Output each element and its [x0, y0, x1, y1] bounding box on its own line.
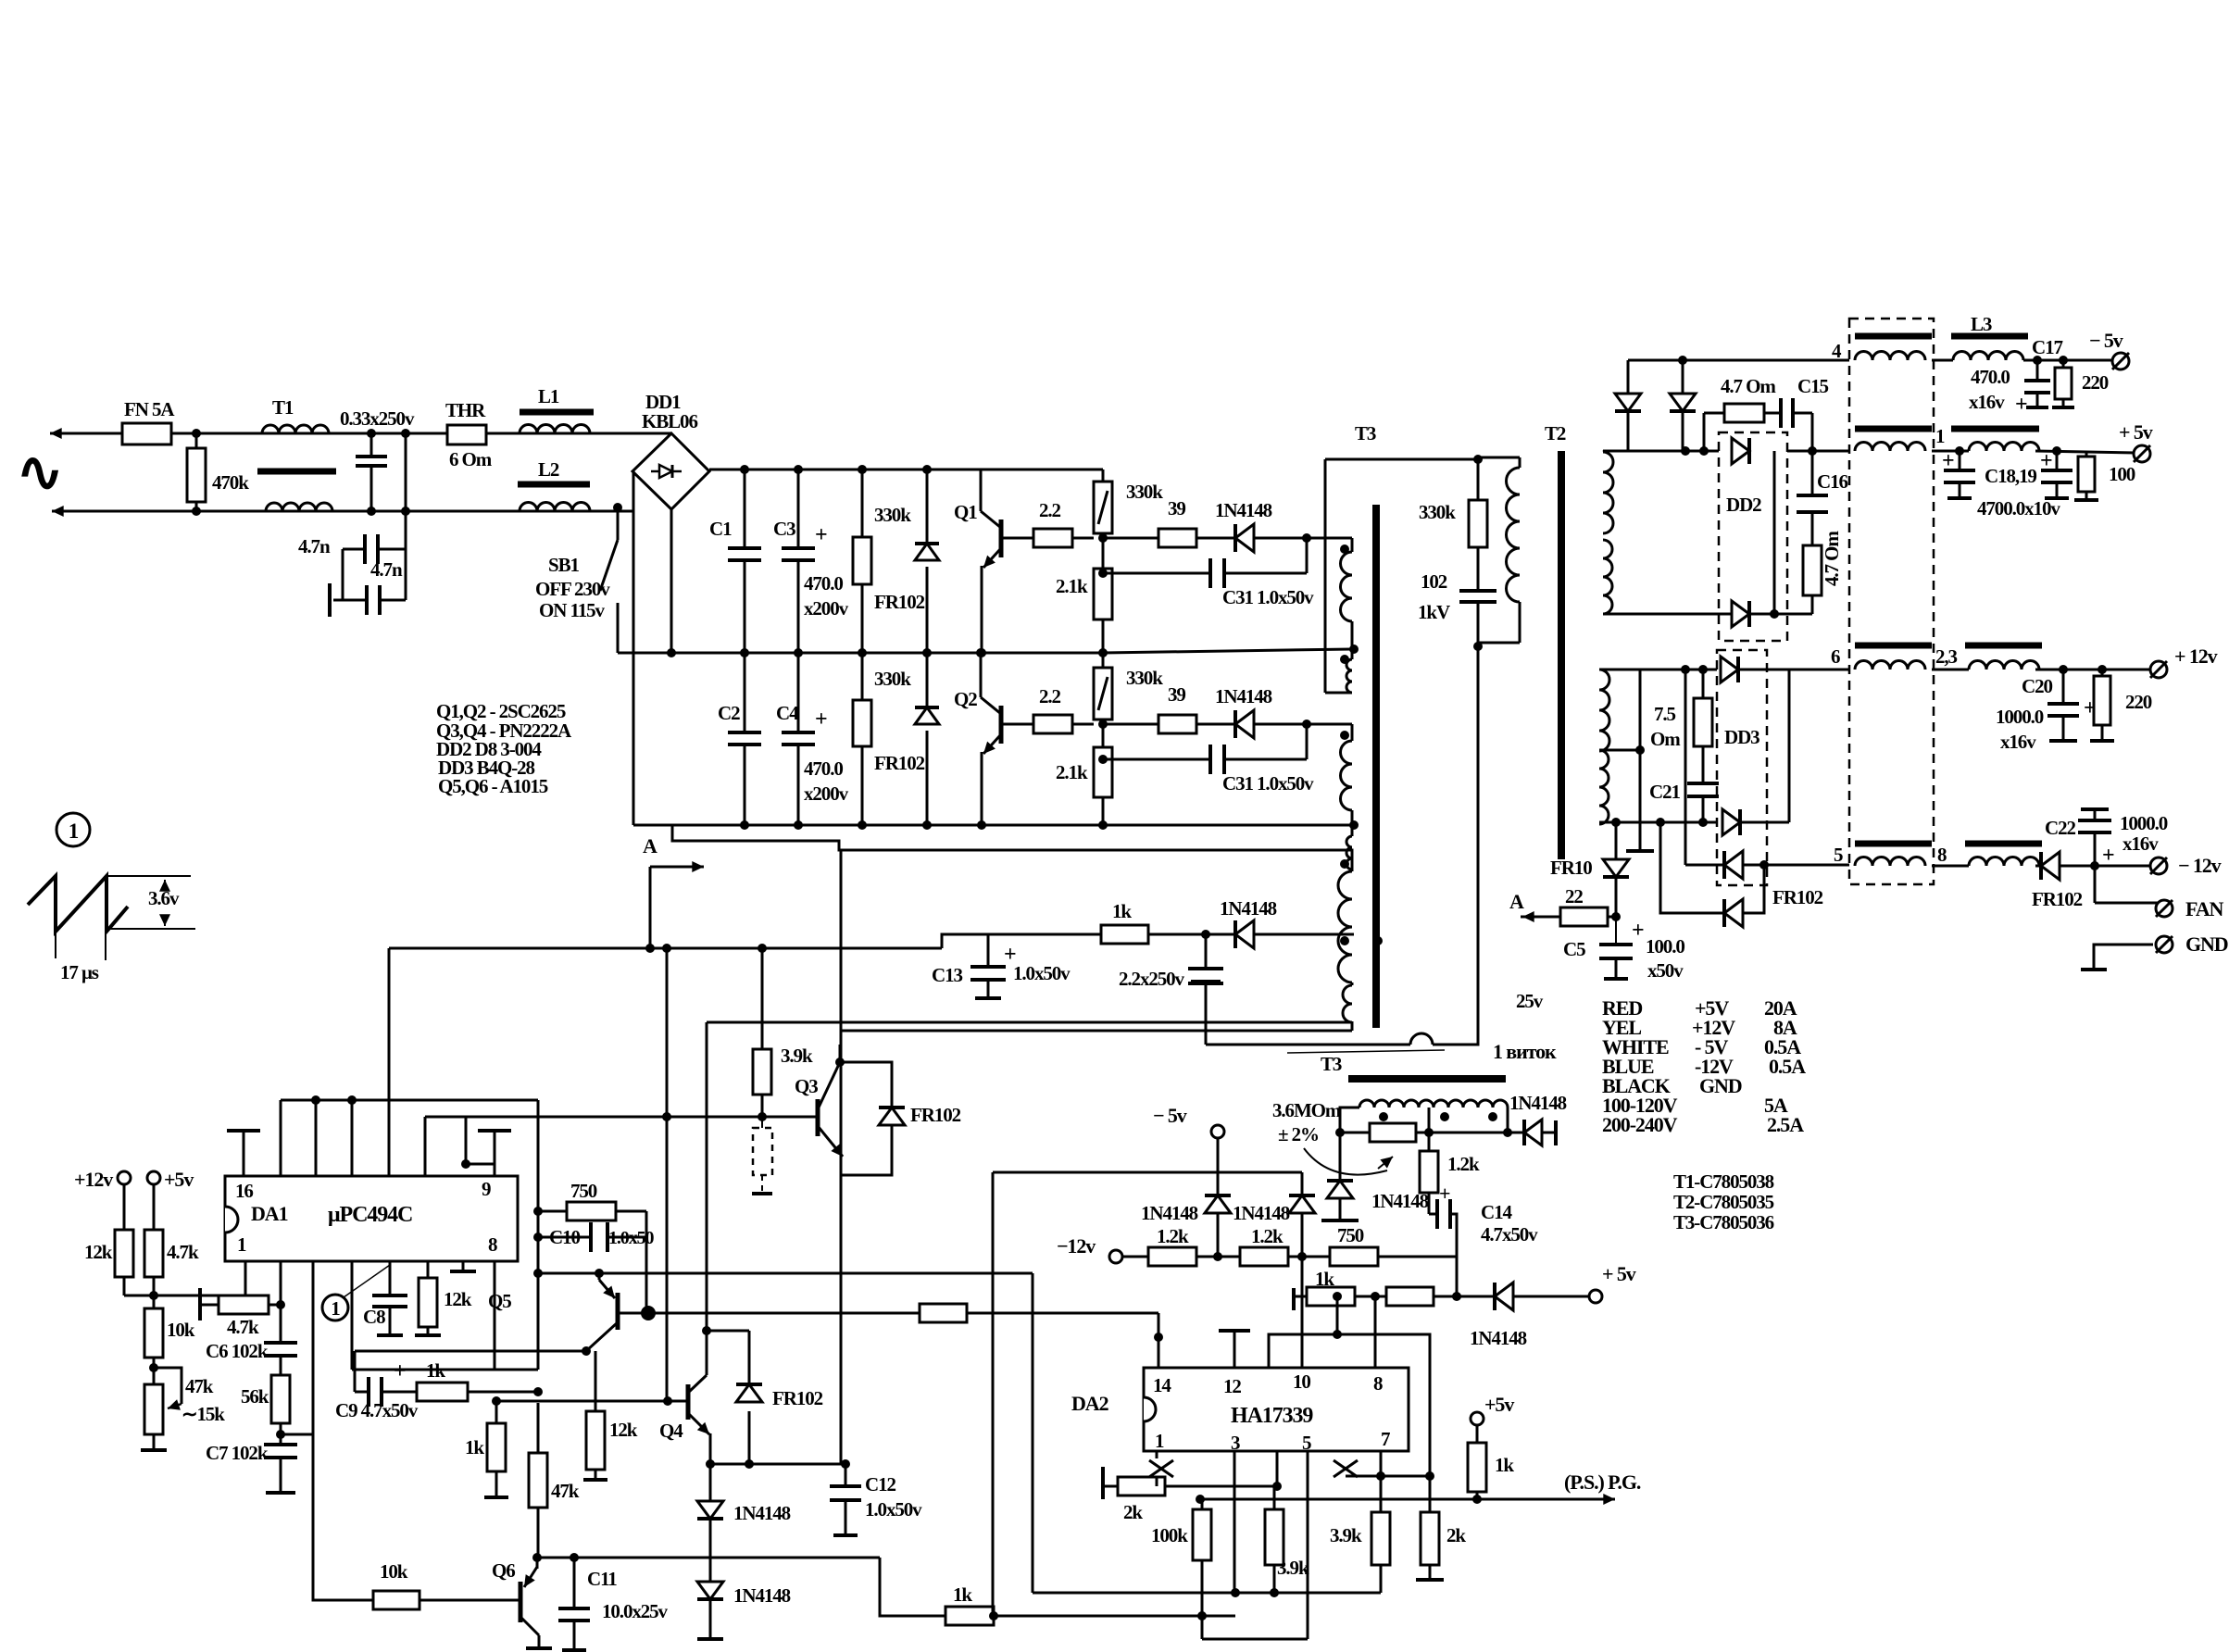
wire mid rail ext [982, 652, 1103, 655]
resistor on Q5 row [920, 1304, 967, 1322]
svg-text:14: 14 [1153, 1374, 1171, 1396]
svg-text:5: 5 [1834, 844, 1843, 866]
svg-text:+5v: +5v [164, 1168, 194, 1191]
svg-text:FAN: FAN [2185, 897, 2223, 920]
wire Q3 collector loop [840, 1062, 892, 1175]
svg-text:DA2: DA2 [1071, 1392, 1109, 1415]
svg-text:0.5A: 0.5A [1769, 1055, 1806, 1078]
T3 winding feedback [1338, 871, 1352, 982]
svg-text:12k: 12k [444, 1288, 472, 1310]
svg-text:Q6: Q6 [492, 1559, 515, 1582]
T3 winding drive2 [1307, 723, 1352, 726]
T3 sense winding B [1434, 1100, 1508, 1108]
svg-text:μPC494C: μPC494C [328, 1203, 412, 1227]
svg-text:C18,19: C18,19 [1985, 465, 2036, 487]
svg-text:1k: 1k [953, 1583, 972, 1606]
IC DA1 uPC494C [225, 1176, 518, 1261]
svg-text:330k: 330k [1126, 667, 1163, 689]
svg-text:2k: 2k [1123, 1501, 1143, 1523]
IC DA2 HA17339 [1144, 1368, 1409, 1451]
svg-text:470.0: 470.0 [804, 572, 843, 594]
svg-text:3.6MOm: 3.6MOm [1272, 1099, 1342, 1121]
label 1 vitok [1287, 1050, 1445, 1053]
wire 100k bottom row [1202, 1638, 1308, 1641]
svg-text:1: 1 [69, 820, 79, 843]
svg-text:3.9k: 3.9k [1330, 1524, 1362, 1546]
svg-text:+12v: +12v [74, 1168, 113, 1191]
svg-text:2,3: 2,3 [1935, 645, 1958, 668]
svg-text:ON 115v: ON 115v [539, 599, 605, 621]
X mark pin1 [1156, 1451, 1158, 1458]
svg-text:1N4148: 1N4148 [1215, 685, 1272, 707]
diode FR102 -12v [1684, 670, 1687, 865]
fuse FN 5A [122, 423, 171, 444]
svg-text:+: + [2102, 844, 2114, 868]
wire Q1 base row [1001, 537, 1033, 540]
svg-text:+5v: +5v [1484, 1393, 1514, 1416]
svg-text:200-240V: 200-240V [1602, 1113, 1678, 1136]
svg-text:750: 750 [1337, 1224, 1364, 1246]
choke bar row4 [1855, 333, 1932, 340]
wire loop left leg [1205, 983, 1208, 1045]
diode FR102 lower loop [1660, 822, 1724, 913]
svg-text:17 μs: 17 μs [60, 961, 99, 983]
sawtooth waveform [28, 876, 128, 932]
pot arrow 3.6MOm [1304, 1148, 1387, 1175]
wire mid rail [618, 652, 982, 655]
svg-text:4.7n: 4.7n [370, 558, 403, 581]
svg-text:x200v: x200v [804, 782, 849, 805]
svg-text:100k: 100k [1151, 1524, 1188, 1546]
svg-text:100: 100 [2109, 463, 2135, 485]
svg-text:1N4148: 1N4148 [1509, 1092, 1567, 1114]
diode 1N4148 left [1339, 1133, 1342, 1181]
T2 secondary upper winding [1603, 452, 1613, 533]
wire DA1 pin8 row [494, 1261, 496, 1370]
svg-text:x200v: x200v [804, 597, 849, 619]
svg-text:330k: 330k [874, 504, 911, 526]
svg-text:+ 12v: + 12v [2174, 645, 2218, 668]
wire to lower cap [405, 549, 407, 600]
wire to pin 1 [124, 1295, 245, 1297]
svg-text:1 виток: 1 виток [1493, 1040, 1557, 1063]
svg-text:8: 8 [1937, 844, 1947, 866]
wire 1k row right [994, 1615, 1202, 1618]
svg-text:750: 750 [570, 1180, 597, 1202]
wire Q2 base row [1001, 723, 1033, 726]
svg-text:330k: 330k [1419, 501, 1456, 523]
svg-text:C20: C20 [2022, 675, 2052, 697]
svg-text:FR102: FR102 [772, 1387, 823, 1409]
svg-text:C21: C21 [1649, 781, 1680, 803]
svg-text:(P.S.) P.G.: (P.S.) P.G. [1564, 1471, 1641, 1494]
svg-text:4.7x50v: 4.7x50v [1481, 1223, 1538, 1245]
svg-text:16: 16 [235, 1180, 253, 1202]
svg-text:Q5: Q5 [488, 1290, 511, 1312]
svg-text:GND: GND [2185, 932, 2228, 956]
wire Q4 base row [496, 1400, 688, 1403]
wire +5v rail from T2 [1603, 450, 1849, 453]
svg-text:39: 39 [1168, 497, 1185, 519]
svg-text:+: + [2015, 393, 2027, 417]
wire Q2 drive to T3 [1254, 723, 1307, 726]
svg-text:FR102: FR102 [874, 591, 925, 613]
svg-text:+ 5v: + 5v [1602, 1262, 1636, 1285]
svg-text:4.7 Om: 4.7 Om [1721, 375, 1776, 397]
svg-text:470k: 470k [212, 471, 249, 494]
output choke dashed box [1849, 319, 1934, 884]
node 1 circle [56, 813, 90, 846]
svg-text:22: 22 [1565, 885, 1583, 907]
svg-text:1000.0: 1000.0 [2120, 812, 2168, 834]
svg-text:x16v: x16v [1969, 391, 2005, 413]
svg-text:1.2k: 1.2k [1157, 1225, 1189, 1247]
svg-text:FR10: FR10 [1550, 857, 1592, 879]
svg-text:FN 5A: FN 5A [124, 398, 175, 420]
wire pin down 2k row [1276, 1451, 1279, 1486]
svg-text:6 Om: 6 Om [449, 448, 493, 470]
node 1 pointer [322, 1295, 348, 1320]
wire T2 center tap [1599, 749, 1640, 752]
wire sense left leg [1340, 1108, 1359, 1133]
wire pin8 up [1374, 1296, 1377, 1368]
svg-text:1: 1 [237, 1233, 246, 1256]
wire bottom rail [633, 824, 1352, 827]
svg-text:C31 1.0x50v: C31 1.0x50v [1222, 772, 1314, 795]
svg-text:THR: THR [445, 399, 486, 421]
svg-text:C4: C4 [776, 702, 799, 724]
svg-text:C5: C5 [1563, 938, 1585, 960]
svg-text:HA17339: HA17339 [1231, 1404, 1313, 1428]
svg-text:T1-C7805038: T1-C7805038 [1673, 1170, 1774, 1193]
svg-text:12k: 12k [609, 1419, 638, 1441]
svg-text:T3-C7805036: T3-C7805036 [1673, 1211, 1774, 1233]
wire pin11 loop [1269, 1334, 1430, 1476]
diode FR102 -12v out [2039, 852, 2043, 880]
svg-text:C2: C2 [718, 702, 740, 724]
svg-text:1N4148: 1N4148 [1470, 1327, 1527, 1349]
svg-text:FR102: FR102 [2032, 888, 2083, 910]
wire AC line top [50, 432, 122, 435]
wire feedback bottom row [841, 1030, 1352, 1032]
svg-text:1N4148: 1N4148 [1141, 1202, 1198, 1224]
svg-text:330k: 330k [1126, 481, 1163, 503]
svg-text:4.7n: 4.7n [298, 535, 331, 557]
svg-text:3.9k: 3.9k [781, 1045, 813, 1067]
wire bottom loop [672, 825, 1352, 871]
wire -5v row [1628, 359, 1849, 362]
svg-text:1kV: 1kV [1418, 601, 1450, 623]
svg-text:220: 220 [2125, 691, 2152, 713]
svg-text:GND: GND [1699, 1074, 1742, 1097]
svg-text:10.0x25v: 10.0x25v [602, 1600, 669, 1622]
wire -12v winding bottom [1599, 821, 1724, 824]
svg-text:SB1: SB1 [548, 554, 579, 576]
pin 9 link [494, 1131, 496, 1176]
svg-text:C13: C13 [932, 964, 962, 986]
svg-text:Q1: Q1 [954, 501, 977, 523]
svg-text:C15: C15 [1797, 375, 1828, 397]
wire Q5 collector row [538, 1272, 1033, 1275]
svg-text:1.2k: 1.2k [1251, 1225, 1284, 1247]
svg-text:10k: 10k [380, 1560, 408, 1583]
wire Q5 emitter row [355, 1350, 586, 1353]
svg-text:330k: 330k [874, 668, 911, 690]
svg-text:4.7k: 4.7k [167, 1241, 199, 1263]
svg-text:C1: C1 [709, 518, 732, 540]
diode -5v A [1627, 360, 1630, 394]
wire 1-vitok loop [1433, 646, 1478, 1045]
svg-text:C8: C8 [363, 1306, 385, 1328]
svg-text:L2: L2 [538, 458, 559, 481]
svg-text:C31 1.0x50v: C31 1.0x50v [1222, 586, 1314, 608]
svg-text:+: + [1632, 919, 1644, 943]
svg-text:12: 12 [1223, 1375, 1241, 1397]
svg-text:220: 220 [2082, 371, 2109, 394]
svg-text:1: 1 [1935, 425, 1945, 447]
choke bar row1 [1855, 426, 1932, 432]
diode DD2 bottom [1603, 613, 1732, 616]
svg-text:2.1k: 2.1k [1056, 575, 1088, 597]
wire pin10 up [1301, 1257, 1304, 1368]
wire Q3 emitter down [840, 1158, 843, 1175]
T3 winding drive1 [1307, 537, 1352, 540]
ground pin 7 [462, 1261, 465, 1270]
svg-text:+ 5v: + 5v [2119, 420, 2153, 444]
wire left return vertical [840, 850, 843, 1464]
svg-text:C11: C11 [587, 1568, 617, 1590]
X mark pin7 row [1334, 1460, 1358, 1477]
junction C9 row [533, 1387, 543, 1396]
svg-text:∿: ∿ [17, 442, 62, 503]
svg-text:FR102: FR102 [874, 752, 925, 774]
svg-text:∼15k: ∼15k [182, 1403, 225, 1425]
svg-text:56k: 56k [241, 1385, 269, 1408]
wire DA1 right bus down [537, 1100, 540, 1370]
wire AC line bottom [52, 510, 196, 513]
svg-text:− 12v: − 12v [2178, 854, 2222, 877]
svg-text:C16: C16 [1817, 470, 1847, 493]
svg-text:+: + [815, 707, 827, 732]
svg-text:x50v: x50v [1647, 959, 1684, 982]
resistor 470k [195, 433, 198, 511]
T3 winding link2 [1349, 820, 1359, 830]
svg-text:1N4148: 1N4148 [733, 1502, 791, 1524]
svg-text:10k: 10k [167, 1319, 195, 1341]
svg-text:1N4148: 1N4148 [1215, 499, 1272, 521]
wire line A [389, 947, 942, 950]
svg-text:470.0: 470.0 [1971, 366, 2010, 388]
svg-text:T1: T1 [272, 396, 294, 419]
resistor da2 row b [1386, 1287, 1434, 1306]
wire DD3 out up [1788, 670, 1791, 822]
T2 secondary lower winding [1599, 670, 1609, 751]
pin 16 cap bar [243, 1131, 245, 1176]
wire sense right leg [1507, 1108, 1509, 1133]
wire T3 bottom lead [707, 1021, 1352, 1024]
svg-text:4700.0x10v: 4700.0x10v [1977, 497, 2060, 519]
svg-text:7.5: 7.5 [1654, 703, 1676, 725]
svg-text:2k: 2k [1446, 1524, 1466, 1546]
svg-text:470.0: 470.0 [804, 757, 843, 780]
svg-text:C22: C22 [2045, 817, 2075, 839]
svg-text:9: 9 [482, 1178, 491, 1200]
svg-text:1.0x50v: 1.0x50v [865, 1498, 922, 1521]
svg-text:KBL06: KBL06 [642, 410, 697, 432]
wire Q3 base row [758, 1112, 767, 1121]
wire bridge minus to bottom rail [632, 471, 635, 825]
svg-text:2.2: 2.2 [1039, 685, 1061, 707]
svg-text:C3: C3 [773, 518, 795, 540]
wire pin14 up [1158, 1313, 1160, 1368]
svg-text:1N4148: 1N4148 [733, 1584, 791, 1607]
node X-cap junction [405, 433, 407, 549]
svg-text:A: A [1509, 890, 1524, 913]
wire DD2 out up [1773, 451, 1776, 614]
svg-text:1k: 1k [465, 1436, 484, 1458]
rectifier DD3 dashed box [1717, 650, 1767, 885]
filter coil +5v [1951, 426, 2039, 432]
svg-text:− 5v: − 5v [2089, 329, 2123, 352]
T2 primary winding [1478, 457, 1520, 459]
svg-text:4.7k: 4.7k [227, 1316, 259, 1338]
choke bar row5 [1855, 841, 1932, 847]
svg-text:OFF 230v: OFF 230v [535, 578, 610, 600]
svg-text:39: 39 [1168, 683, 1185, 706]
svg-text:1k: 1k [1495, 1454, 1514, 1476]
wire C14 leg down [1456, 1257, 1459, 1296]
wire Q1 drive to T3 [1254, 537, 1307, 540]
svg-text:Q2: Q2 [954, 688, 977, 710]
diode FR102 lower [926, 653, 929, 707]
thermistor THR 6 Om [447, 425, 486, 444]
svg-text:2.2: 2.2 [1039, 499, 1061, 521]
svg-text:C17: C17 [2032, 336, 2062, 358]
svg-text:1.0x50v: 1.0x50v [1013, 962, 1071, 984]
wire Q4 collector [706, 1022, 708, 1375]
T3 core [1372, 505, 1380, 1028]
wire +12v rail from T2 [1599, 669, 1849, 671]
svg-text:1000.0: 1000.0 [1996, 706, 2044, 728]
svg-text:4.7 Om: 4.7 Om [1821, 531, 1843, 586]
svg-text:− 5v: − 5v [1153, 1104, 1187, 1127]
svg-text:2.1k: 2.1k [1056, 761, 1088, 783]
svg-text:T2-C7805035: T2-C7805035 [1673, 1191, 1774, 1213]
svg-text:3.6v: 3.6v [148, 887, 180, 909]
wire Q5 node row to DA2 [618, 1312, 1158, 1315]
svg-text:2.5A: 2.5A [1767, 1113, 1804, 1136]
wire pin7 row [1346, 1475, 1430, 1478]
svg-text:x16v: x16v [2123, 832, 2159, 855]
T2 core [1558, 451, 1565, 859]
svg-text:T3: T3 [1355, 422, 1376, 444]
svg-text:DD2: DD2 [1726, 494, 1761, 516]
svg-text:5: 5 [1302, 1432, 1311, 1454]
svg-text:+: + [815, 523, 827, 547]
svg-text:7: 7 [1381, 1428, 1390, 1450]
svg-text:Om: Om [1650, 728, 1681, 750]
wire sense mid leg [1428, 1108, 1431, 1133]
wire Q6 collector [536, 1558, 539, 1569]
svg-text:A: A [643, 834, 657, 857]
ground Y-cap [328, 583, 332, 617]
wire left mid vertical [666, 948, 669, 1398]
svg-text:10: 10 [1293, 1370, 1310, 1393]
pin12 cap bar [1233, 1331, 1236, 1368]
svg-text:47k: 47k [185, 1375, 214, 1397]
svg-text:C9 4.7x50v: C9 4.7x50v [335, 1399, 419, 1421]
svg-text:8: 8 [488, 1233, 497, 1256]
svg-text:100.0: 100.0 [1646, 935, 1684, 957]
svg-text:Q5,Q6 - A1015: Q5,Q6 - A1015 [438, 775, 548, 797]
wire pin5 down [1307, 1451, 1309, 1639]
svg-text:C14: C14 [1481, 1201, 1512, 1223]
svg-text:FR102: FR102 [1772, 886, 1823, 908]
svg-text:L1: L1 [538, 385, 559, 407]
svg-text:C12: C12 [865, 1473, 895, 1496]
wire PS row [1200, 1498, 1574, 1501]
svg-text:x16v: x16v [2000, 731, 2036, 753]
svg-text:± 2%: ± 2% [1278, 1123, 1319, 1145]
svg-text:25v: 25v [1516, 990, 1544, 1012]
diode DD2 top [1732, 438, 1749, 464]
diode -5v B [1682, 360, 1684, 394]
switch SB1 [613, 503, 622, 512]
wire top rail [709, 469, 1103, 471]
svg-text:1k: 1k [1112, 900, 1132, 922]
svg-text:FR102: FR102 [910, 1104, 961, 1126]
rectifier DD2 dashed box [1719, 432, 1787, 641]
wire T3 top link [1325, 458, 1478, 461]
dashed resistor [753, 1128, 772, 1175]
wire 56k to pin [276, 1430, 285, 1439]
wire left tall return [1032, 1273, 1034, 1593]
choke bar row6 [1855, 643, 1932, 649]
wire DA1 top pin bus [281, 1099, 538, 1102]
wire 750 to 1N4148 row [1457, 1295, 1495, 1298]
wire emitter join row [710, 1463, 845, 1466]
svg-text:47k: 47k [551, 1480, 580, 1502]
diode FR102 upper [926, 469, 929, 544]
svg-text:102: 102 [1421, 570, 1447, 593]
svg-text:1N4148: 1N4148 [1233, 1202, 1290, 1224]
svg-text:6: 6 [1831, 645, 1840, 668]
svg-text:DD3: DD3 [1724, 726, 1759, 748]
svg-text:1N4148: 1N4148 [1220, 897, 1277, 920]
wire bottom row Q6 [537, 1557, 880, 1559]
svg-text:C6 102k: C6 102k [206, 1340, 269, 1362]
wire comparator feed row [993, 1171, 1302, 1174]
wire Q4 emitter to diode stack [709, 1464, 712, 1501]
wire bottom bus 1 [1033, 1592, 1381, 1595]
svg-text:C7 102k: C7 102k [206, 1442, 269, 1464]
svg-text:+: + [394, 1359, 406, 1383]
svg-text:0.33x250v: 0.33x250v [340, 407, 415, 430]
wire pin4 down [351, 1261, 354, 1370]
T3 winding link1 [1349, 645, 1359, 654]
diode DD3 bottom [1722, 809, 1740, 835]
svg-text:T3: T3 [1321, 1053, 1342, 1075]
T3 sense winding A [1359, 1100, 1434, 1108]
svg-text:Q4: Q4 [659, 1420, 683, 1442]
terminal FAN [2094, 866, 2097, 903]
svg-text:−12v: −12v [1057, 1234, 1096, 1258]
wire Q4 emitter down [709, 1433, 712, 1464]
svg-text:1.2k: 1.2k [1447, 1153, 1480, 1175]
svg-text:DA1: DA1 [251, 1202, 288, 1225]
svg-text:L3: L3 [1971, 313, 1992, 335]
wire bridge bottom to mid rail [670, 509, 673, 653]
